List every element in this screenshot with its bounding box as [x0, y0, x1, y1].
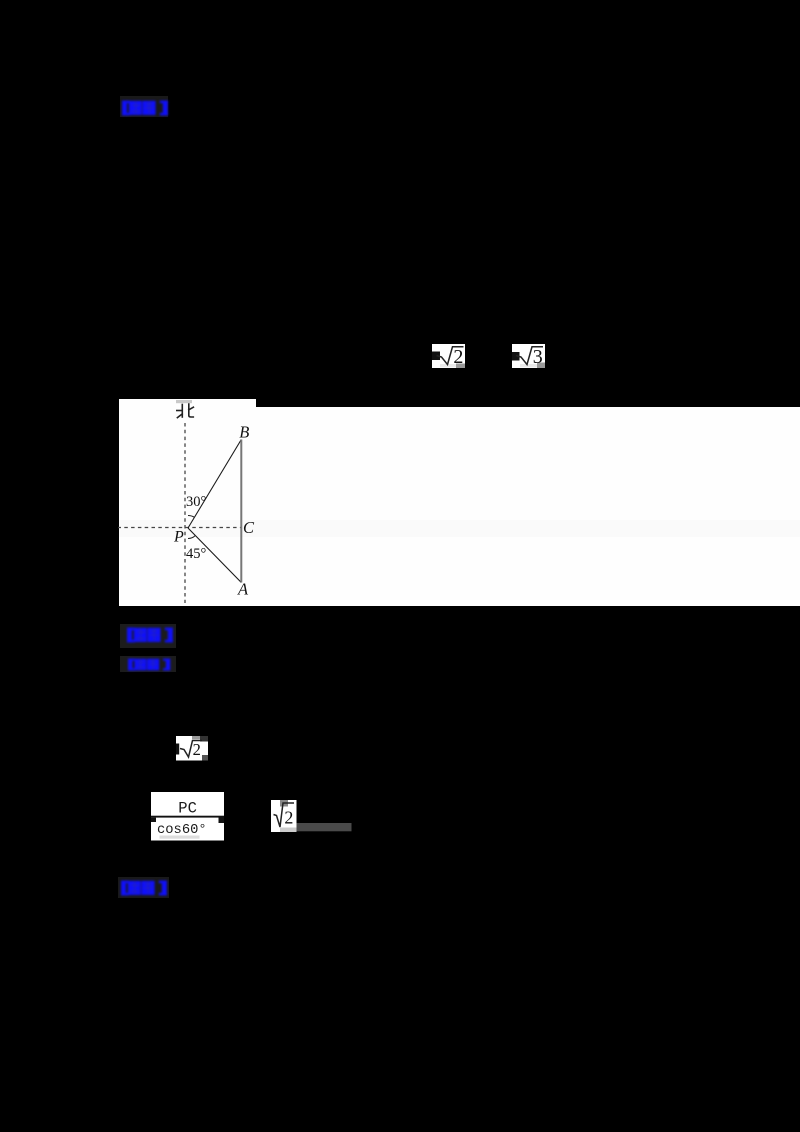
svg-text:P: P: [173, 529, 184, 546]
svg-text:A: A: [237, 580, 249, 599]
svg-text:PC: PC: [178, 800, 197, 818]
svg-text:C: C: [243, 518, 255, 537]
svg-text:45°: 45°: [186, 546, 207, 562]
svg-text:2: 2: [453, 346, 463, 368]
svg-text:2: 2: [284, 807, 293, 827]
svg-text:3: 3: [533, 346, 543, 368]
svg-text:30°: 30°: [186, 494, 207, 510]
svg-text:B: B: [239, 423, 249, 442]
svg-text:2: 2: [192, 740, 200, 759]
